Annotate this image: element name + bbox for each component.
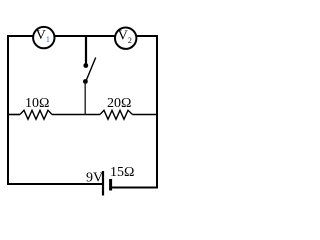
wire bottom right (from battery) — [112, 187, 159, 189]
svg-text:9V: 9V — [86, 171, 103, 186]
svg-text:15Ω: 15Ω — [110, 165, 134, 180]
wire to right edge — [133, 114, 158, 116]
switch upper contact dot — [83, 63, 88, 68]
wire right vertical edge — [156, 35, 158, 189]
svg-text:20Ω: 20Ω — [107, 96, 131, 111]
switch lower contact dot — [83, 79, 88, 84]
wire switch branch lower — [84, 83, 86, 115]
wire bottom left (to battery) — [7, 183, 102, 185]
wire middle horizontal with resistors — [8, 114, 20, 116]
resistor R 20ohm zigzag — [100, 110, 133, 119]
wire between resistors — [52, 114, 100, 116]
wire top horizontal — [8, 35, 157, 37]
wire switch branch upper — [85, 36, 87, 64]
voltmeter V2 circle — [115, 28, 136, 49]
switch blade (open) — [86, 58, 96, 82]
battery B 9V short plate — [109, 179, 112, 191]
resistor R 10ohm zigzag — [20, 110, 52, 119]
battery B 9V long plate — [102, 171, 104, 196]
svg-text:10Ω: 10Ω — [25, 96, 49, 111]
voltmeter V1 circle — [33, 27, 54, 48]
wire left vertical edge — [7, 35, 9, 185]
